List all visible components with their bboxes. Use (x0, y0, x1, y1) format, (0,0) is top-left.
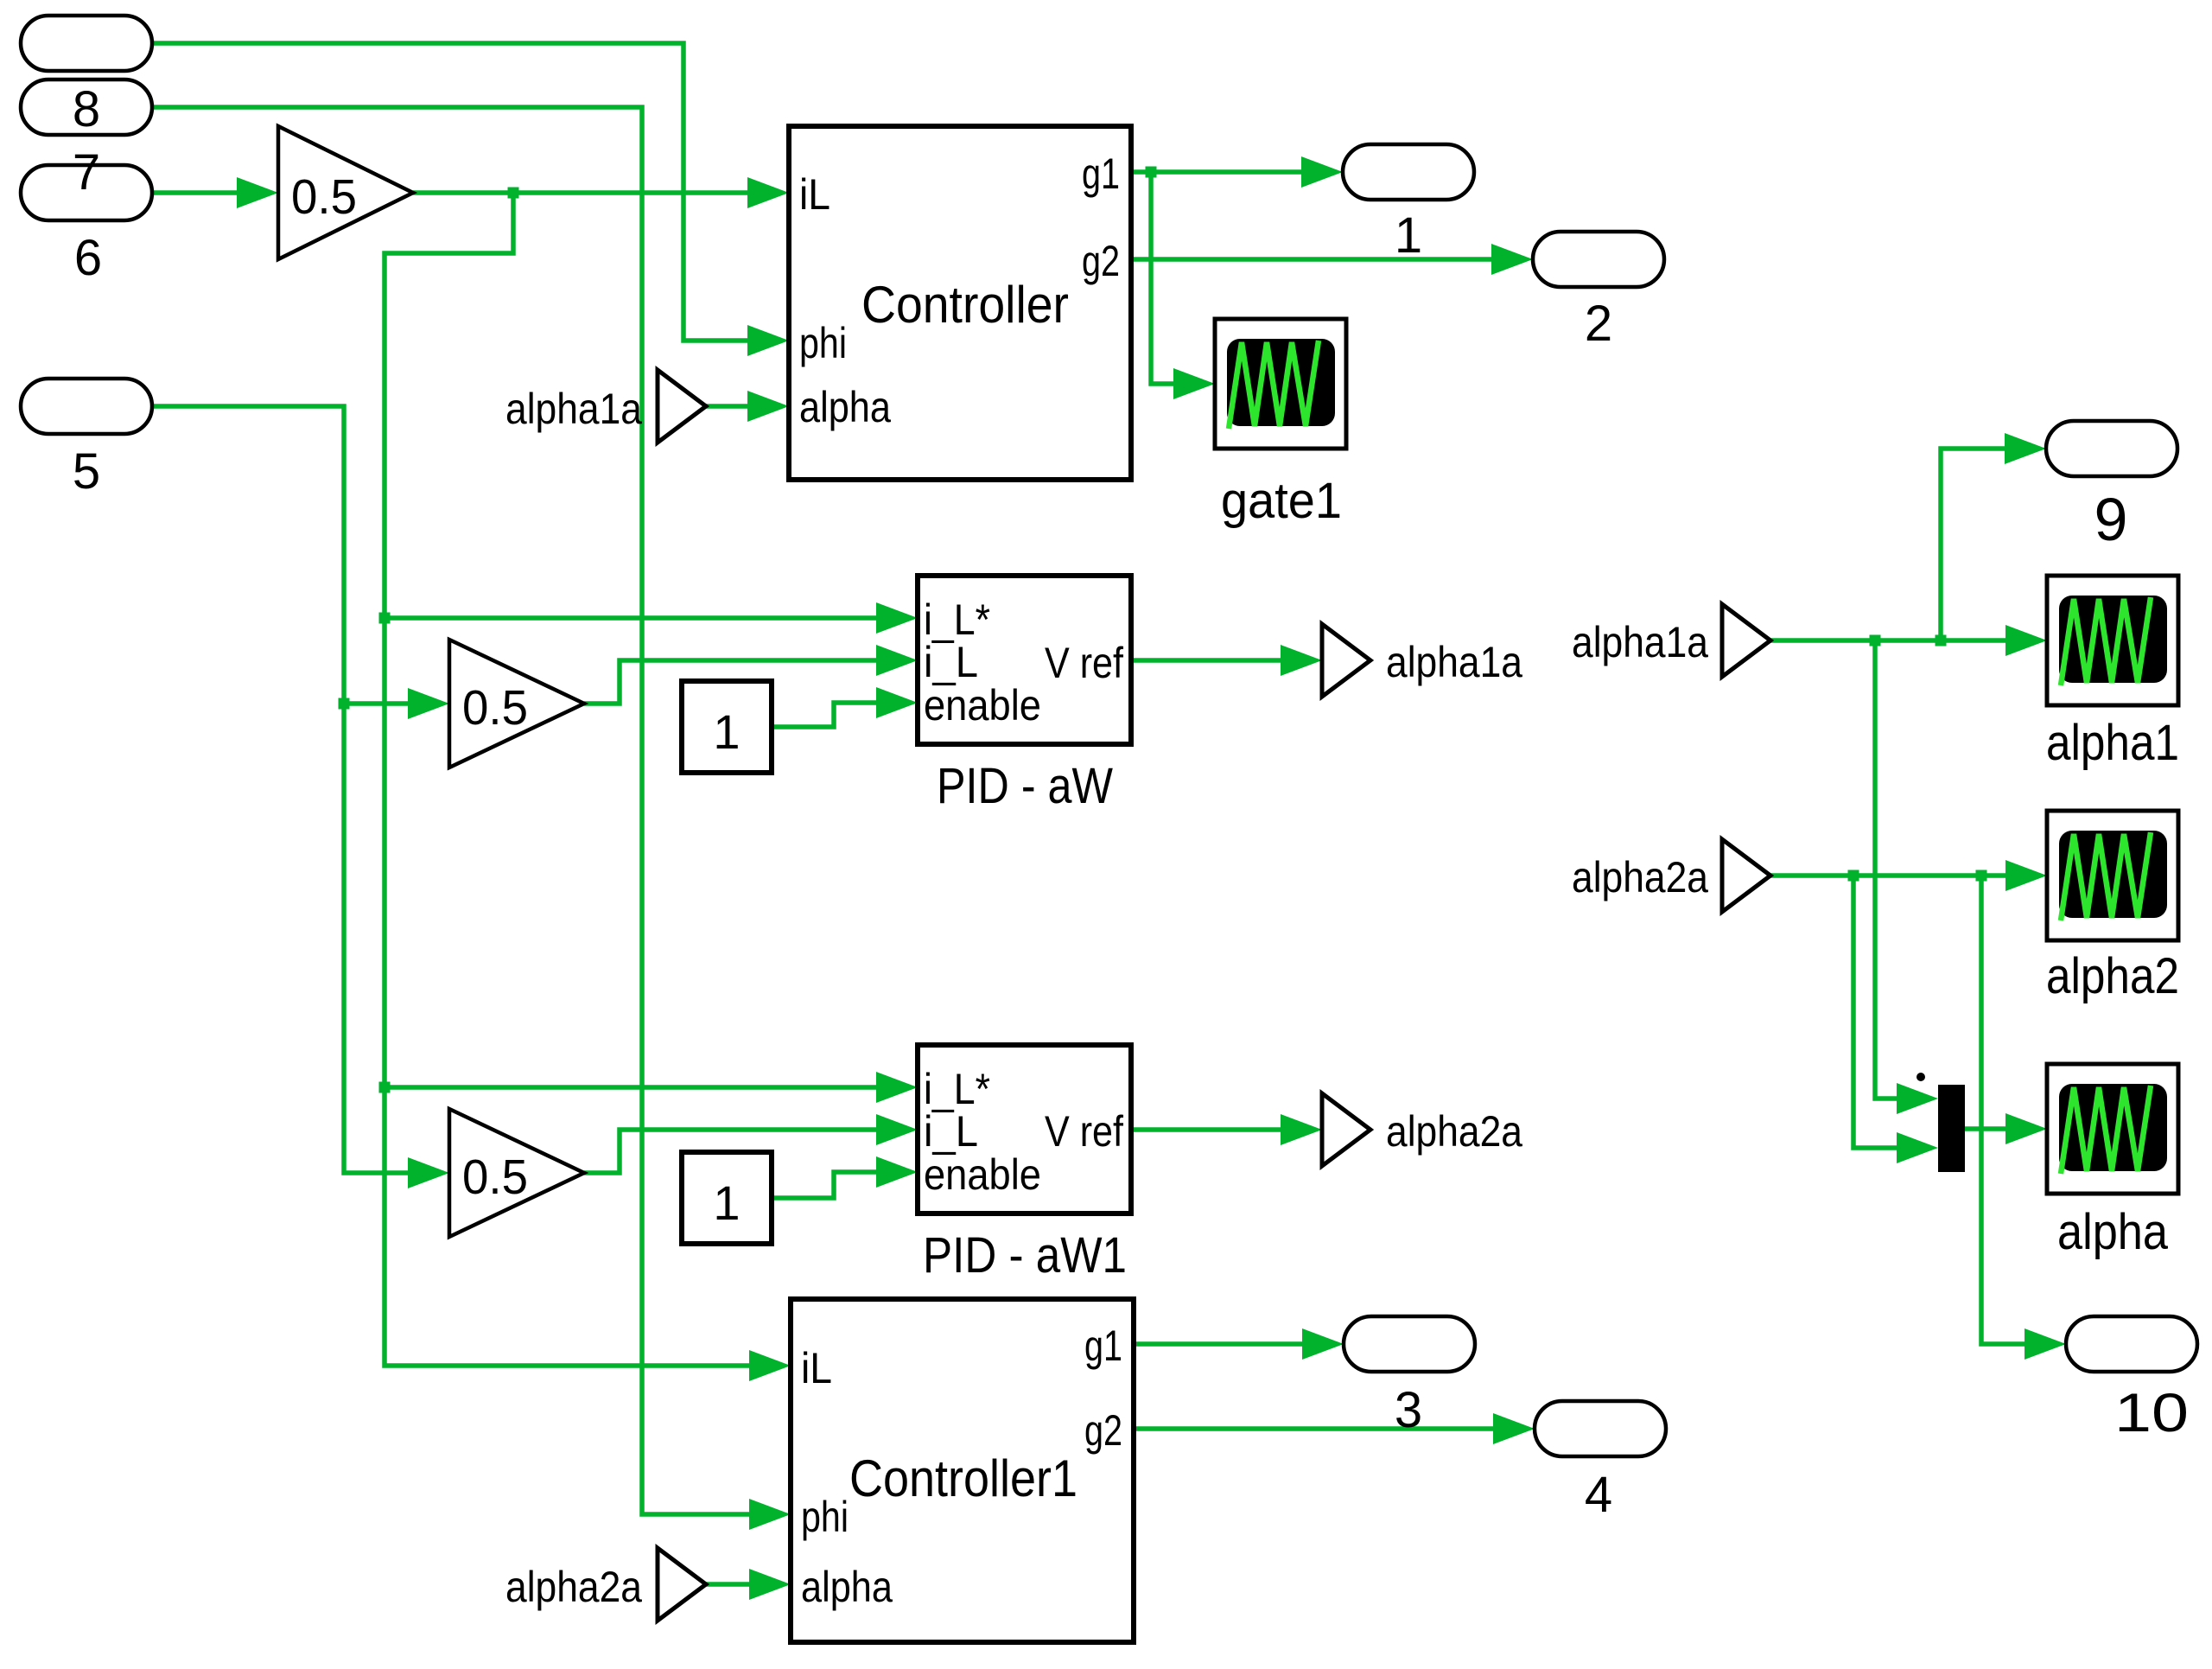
wire source 7 to gain1 (152, 190, 252, 195)
constant block 1 (lower) (682, 1152, 772, 1244)
wire g1 branch to gate1 scope (1151, 172, 1186, 384)
svg-text:0.5: 0.5 (462, 1150, 528, 1205)
gain block gain3 (0.5) (449, 1109, 584, 1237)
svg-text:alpha2a: alpha2a (505, 1563, 642, 1611)
svg-text:alpha1: alpha1 (2046, 715, 2179, 771)
arrowhead into mux in2 (1897, 1132, 1938, 1163)
subsystem block Controller1 (791, 1299, 1134, 1642)
svg-text:7: 7 (73, 144, 100, 201)
svg-text:alpha1a: alpha1a (505, 385, 642, 433)
svg-text:i_L*: i_L* (924, 596, 990, 644)
arrowhead into outport 4 (1493, 1413, 1535, 1444)
arrowhead into gain2 (408, 688, 449, 719)
arrowhead into PID-aW i_L (876, 645, 918, 676)
arrowhead into Controller1 iL (749, 1350, 791, 1381)
wire branch down to out 10 (1981, 876, 2037, 1344)
scope block alpha (2047, 1064, 2178, 1194)
svg-text:V ref: V ref (1045, 639, 1123, 687)
gain block gain2 (0.5) (449, 640, 584, 768)
tag triangle from alpha1a left (658, 370, 706, 443)
wire branch down to mux in2 (1853, 876, 1910, 1148)
arrowhead into Controller alpha (747, 391, 789, 422)
junction gain1 out branch (508, 188, 519, 199)
svg-text:g1: g1 (1084, 1322, 1122, 1370)
arrowhead into PID-aW enable (876, 687, 918, 718)
port oval outport 2 (1533, 232, 1664, 287)
wire Controller1 g2 to out 4 (1134, 1426, 1506, 1431)
svg-text:alpha1a: alpha1a (1386, 638, 1522, 686)
wire mux out to scope alpha (1965, 1126, 2018, 1131)
wire from alpha1a right to scope alpha1 (1770, 638, 2018, 643)
svg-text:alpha: alpha (801, 1563, 893, 1611)
svg-text:1: 1 (1395, 207, 1422, 264)
arrowhead into goto alpha2a (1281, 1114, 1322, 1145)
arrowhead into gate1 (1173, 368, 1215, 399)
svg-text:3: 3 (1395, 1382, 1422, 1438)
svg-text:i_L: i_L (924, 638, 978, 686)
svg-text:g2: g2 (1082, 237, 1120, 285)
wire gain2 to PID-aW i_L (584, 660, 889, 704)
svg-text:g2: g2 (1084, 1406, 1122, 1455)
svg-text:0.5: 0.5 (291, 169, 357, 225)
subsystem block PID - aW1 (918, 1045, 1131, 1214)
constant block 1 (upper) (682, 681, 772, 773)
wire branch to gain2 (344, 701, 421, 706)
wire gain1 branch down (385, 193, 762, 1366)
junction iLstar branch 1 (379, 613, 391, 624)
arrowhead into gain3 (408, 1157, 449, 1188)
svg-text:2: 2 (1585, 296, 1612, 352)
svg-text:g1: g1 (1082, 150, 1120, 198)
port oval outport 1 (1343, 144, 1474, 200)
svg-text:i_L*: i_L* (924, 1065, 990, 1113)
junction alpha2a branch out10 (1976, 870, 1987, 882)
svg-text:gate1: gate1 (1221, 473, 1342, 529)
arrowhead into scope alpha (2005, 1113, 2047, 1144)
scope block alpha1 (2047, 576, 2178, 705)
svg-text:1: 1 (713, 1175, 740, 1230)
tag triangle from alpha2a right (1722, 839, 1770, 912)
junction g1 branch (1146, 167, 1157, 178)
svg-text:alpha1a: alpha1a (1572, 618, 1708, 666)
wire branch up to out 9 (1941, 449, 2018, 640)
arrowhead into outport 9 (2005, 433, 2046, 464)
svg-text:1: 1 (713, 704, 740, 759)
subsystem block Controller (789, 126, 1131, 480)
wire Controller1 g1 to out 3 (1134, 1341, 1315, 1347)
arrowhead into goto alpha1a (1281, 645, 1322, 676)
svg-text:10: 10 (2114, 1383, 2189, 1443)
svg-text:9: 9 (2094, 486, 2128, 553)
gain block gain1 (0.5) (278, 126, 413, 259)
junction alpha2a branch mux (1848, 870, 1859, 882)
mux dot mark (1916, 1073, 1925, 1081)
wire from alpha2a right to scope alpha2 (1770, 873, 2018, 878)
wire from alpha1a to Controller alpha (703, 404, 760, 409)
svg-text:5: 5 (73, 443, 100, 500)
tag triangle goto alpha2a (1322, 1093, 1370, 1166)
svg-text:alpha: alpha (799, 383, 891, 431)
svg-text:PID - aW: PID - aW (937, 758, 1113, 814)
tag triangle goto alpha1a (1322, 624, 1370, 697)
port oval source 8 (21, 80, 152, 135)
wire gain1 out to Controller iL (413, 190, 760, 195)
port oval source unnamed top (21, 16, 152, 71)
wire branch to PID-aW i_L* (385, 615, 889, 621)
svg-text:enable: enable (924, 681, 1041, 729)
wire source 8 to Controller1 phi (152, 107, 762, 1514)
junction alpha1a branch out9 (1935, 635, 1947, 647)
wire PID-aW1 Vref to goto alpha2a (1131, 1127, 1294, 1132)
svg-text:PID - aW1: PID - aW1 (923, 1227, 1127, 1284)
port oval outport 3 (1344, 1316, 1475, 1372)
svg-text:alpha: alpha (2057, 1204, 2169, 1260)
port oval outport 10 (2066, 1316, 2197, 1372)
arrowhead into PID-aW1 enable (876, 1156, 918, 1188)
arrowhead into PID-aW1 i_L (876, 1114, 918, 1145)
junction alpha1a branch mux (1870, 635, 1881, 647)
svg-text:alpha2a: alpha2a (1386, 1107, 1522, 1156)
wire PID-aW Vref to goto alpha1a (1131, 658, 1294, 663)
tag triangle from alpha2a left (658, 1548, 706, 1621)
svg-text:Controller: Controller (861, 276, 1069, 334)
arrowhead into outport 1 (1301, 156, 1343, 188)
svg-text:4: 4 (1585, 1467, 1612, 1523)
svg-text:alpha2: alpha2 (2046, 948, 2179, 1004)
scope block gate1 (1215, 319, 1346, 449)
wire branch to PID-aW1 i_L* (385, 1085, 889, 1090)
arrowhead into outport 2 (1491, 244, 1533, 275)
subsystem block PID - aW (918, 576, 1131, 744)
wire Controller g1 to out 1 (1131, 169, 1314, 175)
arrowhead into Controller1 phi (749, 1499, 791, 1530)
port oval outport 9 (2046, 421, 2177, 476)
port oval source 5 (21, 379, 152, 434)
arrowhead into Controller1 alpha (749, 1569, 791, 1600)
svg-text:0.5: 0.5 (462, 680, 528, 736)
scope block alpha2 (2047, 811, 2178, 940)
junction iLstar branch 2 (379, 1082, 391, 1093)
wire branch down to mux in1 (1875, 640, 1910, 1099)
port oval outport 4 (1535, 1401, 1666, 1456)
svg-text:iL: iL (799, 170, 830, 219)
arrowhead into mux in1 (1897, 1083, 1938, 1114)
junction gain2 feed (339, 698, 350, 710)
svg-text:alpha2a: alpha2a (1572, 853, 1708, 901)
mux block (1938, 1085, 1965, 1172)
svg-text:i_L: i_L (924, 1107, 978, 1156)
tag triangle from alpha1a right (1722, 604, 1770, 677)
port oval source 7/6 (21, 165, 152, 220)
arrowhead into PID-aW i_L* (876, 602, 918, 634)
arrowhead into outport 3 (1302, 1328, 1344, 1360)
wire const1 to PID-aW enable (772, 703, 889, 727)
wire from alpha2a to Controller1 alpha (706, 1582, 762, 1587)
wire const2 to PID-aW1 enable (772, 1172, 889, 1198)
svg-text:enable: enable (924, 1150, 1041, 1199)
svg-text:iL: iL (801, 1344, 832, 1392)
wire Controller g2 to out 2 (1131, 257, 1504, 262)
svg-text:8: 8 (73, 81, 100, 137)
arrowhead into gain1 (237, 177, 278, 208)
wire gain3 to PID-aW1 i_L (584, 1130, 889, 1173)
arrowhead into outport 10 (2024, 1328, 2066, 1360)
svg-text:Controller1: Controller1 (849, 1449, 1077, 1507)
arrowhead into Controller phi (747, 325, 789, 356)
svg-text:phi: phi (799, 319, 847, 367)
svg-text:6: 6 (74, 230, 102, 286)
arrowhead into scope alpha1 (2005, 625, 2047, 656)
svg-text:V ref: V ref (1045, 1107, 1123, 1156)
arrowhead into Controller iL (747, 177, 789, 208)
svg-text:phi: phi (801, 1493, 849, 1541)
wire source top to Controller phi (152, 43, 760, 341)
arrowhead into PID-aW1 i_L* (876, 1072, 918, 1103)
arrowhead into scope alpha2 (2005, 860, 2047, 891)
wire source 5 down to gain3 (152, 406, 421, 1173)
